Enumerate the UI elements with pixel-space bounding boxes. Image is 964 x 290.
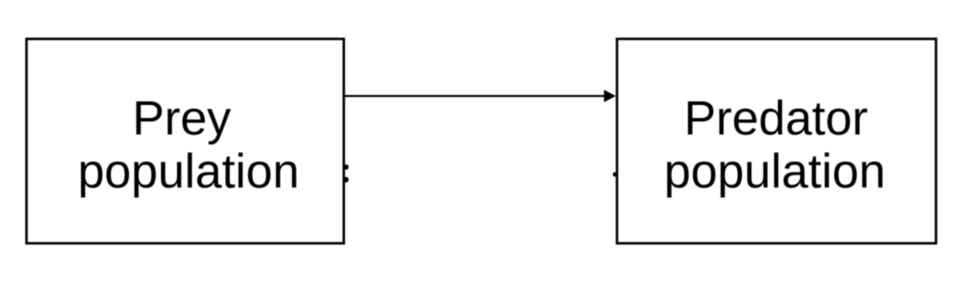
stray dot on predator box left edge — [613, 172, 617, 176]
box: Prey population — [27, 39, 344, 243]
svg-text:Prey: Prey — [132, 92, 231, 145]
stray mark: colon on prey box right edge — [344, 164, 349, 182]
label: Predator population — [664, 93, 886, 199]
label: Prey population — [78, 92, 300, 198]
box: Predator population — [617, 39, 936, 243]
svg-text:Predator: Predator — [684, 93, 868, 146]
svg-text:population: population — [78, 145, 300, 198]
arrow: prey to predator (wire) — [345, 90, 616, 103]
svg-text:population: population — [664, 145, 886, 198]
